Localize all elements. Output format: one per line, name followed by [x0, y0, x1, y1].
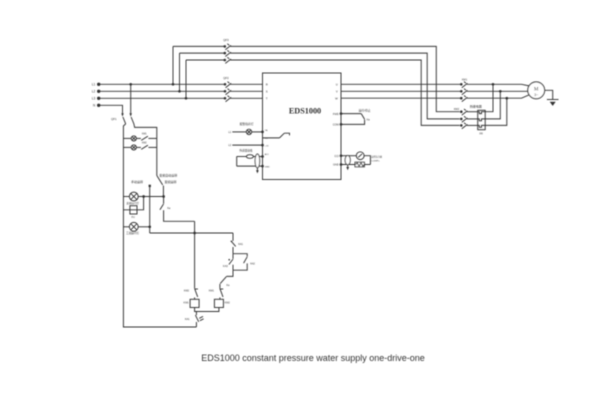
svg-text:KM2: KM2 — [225, 301, 231, 304]
svg-text:N: N — [93, 104, 96, 108]
svg-text:KM1: KM1 — [462, 78, 468, 82]
svg-text:传感器接线: 传感器接线 — [239, 149, 252, 153]
svg-text:L2: L2 — [92, 90, 96, 94]
lamp HL2 row — [123, 145, 140, 150]
wire FR to U node — [485, 84, 493, 111]
svg-text:QF2: QF2 — [223, 76, 229, 80]
svg-text:KA1: KA1 — [185, 318, 190, 321]
wire motor to ground — [545, 90, 553, 99]
svg-text:GND: GND — [333, 163, 339, 167]
wire V output — [341, 90, 461, 92]
switch Ka vfd start — [160, 197, 195, 222]
breaker QF2 — [223, 76, 262, 102]
svg-text:Ka: Ka — [167, 207, 171, 210]
contactor KM1 main — [460, 78, 529, 102]
svg-text:L2: L2 — [228, 144, 231, 147]
svg-text:EDS1000: EDS1000 — [289, 107, 321, 116]
svg-text:KM2: KM2 — [142, 143, 147, 145]
wire to Ka jog — [226, 270, 233, 276]
svg-text:TC: TC — [265, 138, 268, 140]
node W junction — [505, 97, 508, 100]
node L1 terminal — [92, 83, 101, 87]
gauge P remote pressure — [340, 152, 383, 170]
svg-text:运行/停止: 运行/停止 — [359, 109, 371, 113]
svg-text:KA3: KA3 — [223, 265, 228, 268]
svg-text:KM1: KM1 — [209, 290, 215, 293]
node U junction — [492, 83, 495, 86]
wire QF3 pole1 to KM2 — [230, 46, 460, 111]
svg-text:L1: L1 — [228, 131, 231, 134]
switch SA selector — [149, 176, 164, 197]
svg-text:+10: +10 — [265, 145, 269, 147]
wire L1 riser to QF3 — [172, 46, 175, 85]
svg-text:COM: COM — [333, 123, 339, 127]
lamp L1 alarm — [228, 122, 263, 135]
svg-text:M: M — [534, 87, 539, 93]
wire KM1 branch vertical — [193, 221, 196, 288]
svg-text:KM1: KM1 — [184, 301, 190, 304]
wire U output — [341, 83, 461, 85]
wire L2 riser to QF3 — [178, 53, 181, 93]
wire L3 bus — [99, 97, 225, 99]
svg-text:L1: L1 — [92, 83, 96, 87]
relay FR thermal — [470, 103, 485, 135]
wire L1 bus — [99, 83, 225, 85]
svg-text:手动运转: 手动运转 — [131, 179, 143, 184]
contact KM2 NC left — [184, 289, 198, 300]
wire QF3 pole2 to KM2 — [230, 53, 460, 119]
svg-text:变频自动运转: 变频自动运转 — [159, 172, 177, 177]
wire control left rail — [123, 124, 196, 327]
svg-text:FR: FR — [480, 132, 484, 135]
lamp HL4 freq run — [123, 222, 151, 235]
svg-text:KA2: KA2 — [250, 263, 255, 266]
node V junction — [499, 90, 502, 93]
coil KM1 — [184, 299, 200, 307]
svg-text:3~: 3~ — [534, 93, 538, 97]
wire L2 to +10 — [228, 144, 269, 148]
wire coil common — [195, 308, 219, 312]
lamp HL1 row — [123, 136, 140, 141]
contact KA3 parallel left — [223, 254, 233, 271]
wire FR to V node — [485, 91, 500, 119]
coil KM2 — [214, 299, 230, 307]
svg-text:S: S — [266, 90, 268, 94]
sensor loop left — [237, 154, 264, 173]
wire L1 tap to QF1 — [129, 83, 132, 117]
svg-text:变频运行灯: 变频运行灯 — [126, 201, 139, 205]
breaker QF3 — [173, 38, 231, 63]
motor M1 — [528, 82, 545, 99]
svg-text:Ka: Ka — [226, 284, 230, 287]
breaker QF1 — [111, 117, 134, 124]
svg-text:QF3: QF3 — [223, 38, 229, 42]
wire control lower bus — [150, 232, 233, 234]
switch Ka run-stop — [340, 109, 371, 126]
svg-text:GND: GND — [265, 166, 270, 168]
relay contact TA-TC internal — [263, 133, 290, 138]
svg-text:L3: L3 — [92, 97, 96, 101]
ground — [547, 100, 559, 106]
wire L3 riser to QF3 — [185, 60, 188, 100]
contact KM1 NC right — [209, 289, 223, 300]
node L3 terminal — [92, 97, 101, 101]
svg-text:变频运转: 变频运转 — [164, 179, 176, 184]
fuse FU — [123, 197, 143, 220]
svg-text:KM2: KM2 — [184, 290, 190, 293]
svg-text:EDS1000 constant pressure wate: EDS1000 constant pressure water supply o… — [201, 353, 425, 363]
wire FR to W node — [485, 98, 507, 125]
svg-text:R: R — [266, 83, 268, 87]
inverter U1 EDS1000 — [263, 73, 342, 180]
svg-text:远传压力表: 远传压力表 — [371, 155, 383, 159]
wire W output — [341, 97, 461, 99]
svg-text:0-10MPa: 0-10MPa — [371, 160, 380, 162]
svg-text:CCI: CCI — [334, 154, 339, 158]
svg-text:热继电器: 热继电器 — [470, 103, 482, 108]
wire L2 bus — [99, 90, 225, 92]
contact KA1 bottom — [185, 312, 204, 328]
svg-text:工频运行灯: 工频运行灯 — [126, 231, 139, 235]
switch Ka jog — [220, 277, 230, 289]
contactor KM2 main — [454, 107, 478, 129]
contact KM1 aux row1 — [141, 134, 157, 141]
wire QF1 right pole to selector rail — [134, 124, 157, 176]
node L2 terminal — [92, 90, 101, 94]
svg-text:FU: FU — [132, 216, 136, 219]
contact KM2 aux row2 — [141, 143, 157, 150]
wire QF3 pole3 to KM2 — [230, 60, 460, 125]
svg-text:KM1: KM1 — [142, 134, 147, 136]
node N terminal — [93, 104, 100, 108]
svg-text:Ka: Ka — [367, 119, 371, 122]
lamp HL3 manual run — [123, 192, 165, 205]
svg-text:KA1: KA1 — [238, 243, 243, 246]
svg-text:FWD: FWD — [333, 112, 339, 116]
svg-text:T: T — [266, 97, 268, 101]
svg-text:报警指示灯: 报警指示灯 — [240, 122, 254, 126]
svg-text:QF1: QF1 — [111, 117, 117, 121]
svg-text:ACI: ACI — [265, 153, 269, 156]
contact KA1 chain — [231, 233, 244, 254]
svg-text:V: V — [336, 90, 338, 94]
svg-text:KM2: KM2 — [454, 107, 460, 111]
wire selector manual contact drop — [149, 187, 151, 233]
contact KA2 parallel right — [233, 254, 256, 271]
svg-text:U: U — [336, 83, 338, 87]
svg-text:W: W — [335, 97, 338, 101]
wire N to QF1 — [99, 105, 124, 117]
svg-text:TA: TA — [265, 129, 268, 132]
